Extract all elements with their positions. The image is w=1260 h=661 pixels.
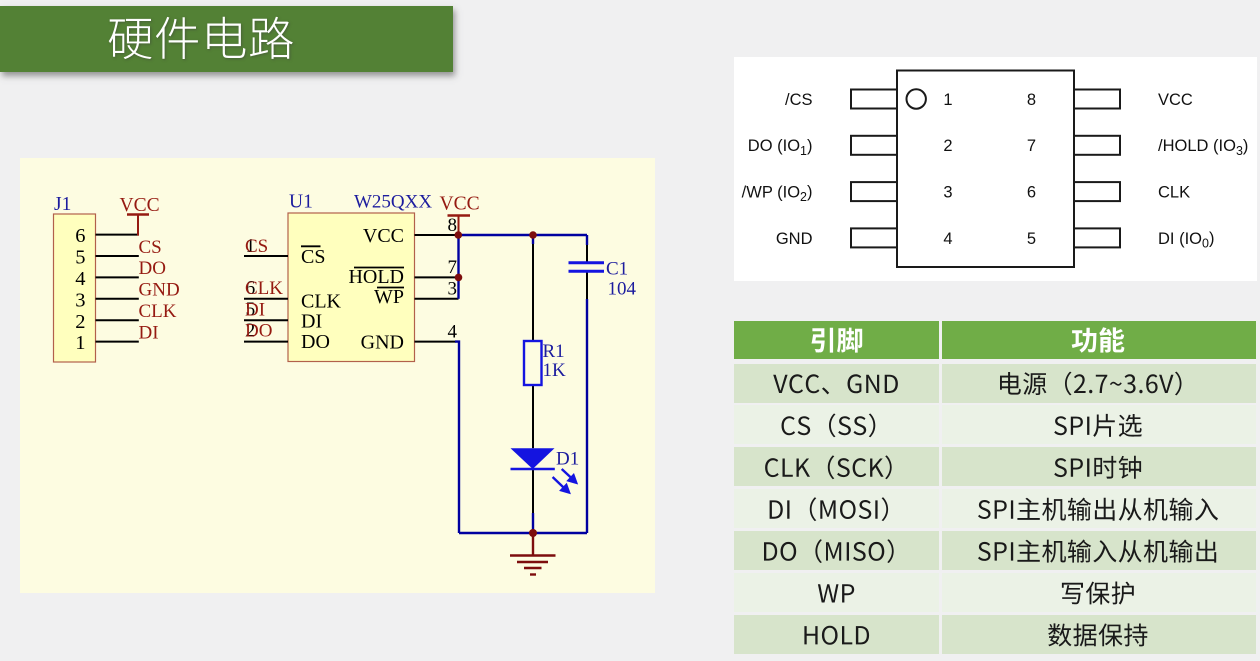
svg-text:1K: 1K <box>543 360 567 381</box>
svg-text:VCC: VCC <box>363 225 404 247</box>
U1 inside pin name HOLD with overline <box>348 266 404 288</box>
wire vcc to pins 7,3 <box>457 235 459 299</box>
svg-text:GND: GND <box>139 280 180 301</box>
wire bottom rail <box>459 532 587 534</box>
U1 right pin stubs 8 7 3 4 <box>415 235 459 342</box>
svg-text:DO: DO <box>139 258 166 279</box>
svg-text:DI: DI <box>139 322 159 343</box>
svg-text:/CS: /CS <box>785 91 813 109</box>
svg-text:W25QXX: W25QXX <box>354 191 432 212</box>
U1 right pin numbers 8 7 3 4 <box>448 215 458 343</box>
U1 inside pin name WP with overline <box>374 286 404 308</box>
table row DI（MOSI） <box>770 497 1218 521</box>
U1 left net labels CS CLK DI DO (dark red) <box>245 236 283 342</box>
table row VCC、GND <box>773 371 1181 395</box>
table row DO（MISO） <box>764 539 1216 563</box>
svg-text:6: 6 <box>75 225 85 247</box>
pinout right pads <box>1074 90 1120 248</box>
svg-text:DI: DI <box>245 299 265 320</box>
power VCC rail top <box>440 194 480 236</box>
table row CS（SS） <box>782 413 1142 437</box>
svg-text:CS: CS <box>245 236 268 257</box>
table header 引脚 功能 <box>812 327 1125 353</box>
svg-text:104: 104 <box>608 279 637 300</box>
svg-text:DO: DO <box>301 331 330 353</box>
junction at pin8 <box>455 231 463 239</box>
svg-text:3: 3 <box>448 279 458 300</box>
J1 pin wires <box>96 235 139 342</box>
svg-text:4: 4 <box>943 230 952 248</box>
svg-text:7: 7 <box>1027 137 1036 155</box>
svg-text:CS: CS <box>301 246 325 268</box>
svg-text:2: 2 <box>943 137 952 155</box>
svg-text:DO (IO1​): DO (IO1​) <box>748 137 813 158</box>
svg-text:5: 5 <box>75 247 85 269</box>
wire top rail <box>456 234 587 236</box>
J1 net labels CS DO GND CLK DI <box>139 237 180 344</box>
pinout pin numbers 1-4 <box>943 91 952 248</box>
pin1 indicator circle <box>907 89 926 108</box>
svg-text:VCC: VCC <box>120 195 160 216</box>
U1 inside pin names CLK DI DO <box>301 290 342 353</box>
junction at pin7 <box>455 274 463 282</box>
svg-text:CS: CS <box>139 237 162 258</box>
svg-text:CLK: CLK <box>1158 184 1190 202</box>
U1 left pin stubs <box>244 256 288 342</box>
wire pin4 down <box>455 342 459 533</box>
pinout chip body <box>897 71 1074 268</box>
svg-text:4: 4 <box>75 268 85 290</box>
power VCC at J1 <box>120 195 160 236</box>
ground symbol <box>510 533 556 575</box>
U1 inside pin name VCC <box>363 225 404 247</box>
svg-text:C1: C1 <box>606 259 628 280</box>
pinout left pads <box>851 90 897 248</box>
svg-text:1: 1 <box>943 91 952 109</box>
svg-text:CLK: CLK <box>301 290 342 312</box>
U1 inside pin name GND <box>361 332 404 354</box>
svg-text:VCC: VCC <box>1158 91 1193 109</box>
svg-text:HOLD: HOLD <box>348 266 404 288</box>
U1 inside pin name CS with overline <box>301 246 325 268</box>
resistor R1 1K <box>524 341 566 385</box>
svg-text:6: 6 <box>1027 184 1036 202</box>
svg-text:VCC: VCC <box>440 194 480 215</box>
svg-text:2: 2 <box>75 311 85 333</box>
svg-text:/HOLD (IO3​): /HOLD (IO3​) <box>1158 137 1248 158</box>
svg-text:1: 1 <box>75 332 85 354</box>
svg-text:R1: R1 <box>543 341 565 362</box>
svg-text:CLK: CLK <box>245 278 283 299</box>
IC U1 W25QXX body <box>288 191 432 361</box>
svg-text:WP: WP <box>374 286 404 308</box>
svg-text:4: 4 <box>448 321 458 342</box>
junction top R1 <box>529 231 537 239</box>
svg-text:/WP (IO2​): /WP (IO2​) <box>742 183 813 204</box>
svg-text:DI: DI <box>301 310 322 332</box>
J1 pin numbers 6-1 <box>75 225 85 354</box>
LED D1 <box>511 448 580 492</box>
svg-text:DO: DO <box>245 321 272 342</box>
svg-text:CLK: CLK <box>139 301 177 322</box>
svg-text:8: 8 <box>1027 91 1036 109</box>
svg-text:GND: GND <box>776 230 813 248</box>
wire R1/D1 branch <box>532 235 534 533</box>
svg-text:D1: D1 <box>556 449 579 470</box>
junction ground <box>529 529 537 537</box>
table row WP <box>818 581 1134 604</box>
U1 left pin numbers 1 6 5 2 (black, under net labels) <box>246 236 256 342</box>
pinout right labels <box>1158 91 1248 251</box>
wire C1 branch <box>586 235 588 533</box>
svg-text:GND: GND <box>361 332 404 354</box>
pinout pin numbers 8-5 <box>1027 91 1036 248</box>
pinout left labels <box>742 91 813 248</box>
svg-text:DI (IO0​): DI (IO0​) <box>1158 229 1214 250</box>
svg-text:U1: U1 <box>289 191 313 212</box>
svg-text:3: 3 <box>943 184 952 202</box>
svg-text:3: 3 <box>75 289 85 311</box>
table row CLK（SCK） <box>765 455 1141 479</box>
connector J1 <box>54 194 96 362</box>
svg-text:5: 5 <box>1027 230 1036 248</box>
table row HOLD <box>804 623 1147 646</box>
capacitor C1 104 <box>569 259 637 300</box>
svg-text:J1: J1 <box>54 194 71 215</box>
